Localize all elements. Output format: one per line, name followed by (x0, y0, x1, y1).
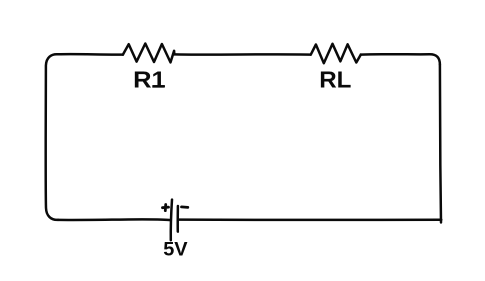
wire left vertical with rounded top-left and bottom-left corners (46, 54, 58, 220)
svg-text:5V: 5V (163, 239, 187, 260)
wire top-left segment (corner to R1) (58, 53, 123, 56)
wire bottom-left segment (battery to corner) (58, 218, 171, 221)
wire right vertical (440, 65, 441, 223)
svg-text:R1: R1 (133, 68, 166, 94)
label 5V (163, 239, 187, 260)
label R1 (133, 68, 166, 94)
wire top middle segment (R1 to RL) (174, 53, 310, 56)
battery minus sign (182, 205, 188, 208)
svg-text:RL: RL (319, 67, 351, 92)
resistor RL (311, 44, 361, 63)
wire bottom-right segment (corner to battery) (179, 218, 442, 221)
resistor R1 (123, 44, 174, 63)
label RL (319, 67, 351, 92)
wire top-right segment with rounded top-right corner (361, 54, 440, 64)
battery plus sign (163, 205, 169, 211)
battery V1 short plate (negative) (176, 206, 179, 232)
battery V1 long plate (positive) (171, 200, 172, 241)
